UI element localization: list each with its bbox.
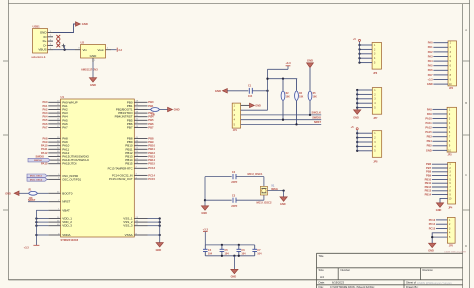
svg-text:10K: 10K (299, 97, 304, 99)
JP6 pin 4 stub (360, 57, 373, 59)
JP4 pin 4 stub (432, 175, 448, 177)
power port +3.3 at regulator output (116, 48, 118, 52)
svg-text:PB7: PB7 (148, 125, 154, 129)
U1 pin 30 (PA9) stub (48, 141, 60, 143)
U1 pin 6 (OSC_OUT/PD1) stub (48, 178, 60, 180)
header JP5 body (447, 217, 455, 243)
svg-text:SWDIO: SWDIO (312, 116, 321, 120)
JP5 pin 1 stub (436, 219, 447, 221)
resistor R4 (296, 79, 298, 91)
svg-text:JP6: JP6 (373, 73, 378, 75)
svg-text:6/19/2023: 6/19/2023 (332, 281, 344, 285)
svg-text:GND: GND (156, 249, 162, 252)
svg-text:3.3: 3.3 (118, 48, 122, 52)
U1 pin 36 (VDD_2) stub (48, 221, 60, 223)
header JP2 body (448, 41, 457, 86)
svg-text:22PF: 22PF (231, 181, 237, 184)
svg-text:PB12: PB12 (148, 151, 155, 155)
power port +3.3 bottom left (33, 244, 39, 246)
port MCU_OSC2 (27, 178, 47, 182)
svg-text:PB8: PB8 (148, 136, 154, 140)
svg-text:PA7: PA7 (428, 73, 433, 77)
JP8 pin 4 stub (357, 145, 372, 147)
JP2 pin 7 stub (433, 69, 448, 71)
svg-text:PA8: PA8 (42, 136, 48, 140)
JP7 pin 4 stub (357, 102, 372, 104)
svg-text:PC14: PC14 (429, 222, 436, 226)
svg-text:PA9: PA9 (42, 140, 48, 144)
U1 pin 15 (PA5) stub (48, 119, 60, 121)
svg-text:PC14: PC14 (148, 173, 155, 177)
svg-text:PA2: PA2 (428, 50, 433, 54)
USB1 pin 2 (ID) stub (48, 36, 54, 38)
header JP4 body (448, 162, 456, 204)
svg-text:PC13-TAMPER-RTC: PC13-TAMPER-RTC (108, 166, 133, 170)
svg-text:PA9: PA9 (427, 112, 432, 116)
svg-text:usb-micro-b: usb-micro-b (32, 56, 46, 59)
wire C2 to OSC1 node (236, 176, 264, 178)
svg-text:GND: GND (427, 82, 433, 86)
JP1 pin4 wire SWDIO (241, 119, 322, 121)
svg-text:OSC_IN/PD0: OSC_IN/PD0 (62, 174, 78, 178)
crystal Y1 body (260, 186, 267, 195)
svg-text:Number: Number (341, 268, 351, 272)
U1 pin 31 (PA10) stub (48, 145, 60, 147)
title block outline (317, 252, 463, 254)
svg-text:PB7: PB7 (127, 126, 133, 130)
svg-text:GND: GND (436, 209, 442, 212)
svg-text:PB9: PB9 (426, 174, 432, 178)
power port +5 above JP6 (359, 39, 361, 41)
svg-text:GND: GND (90, 54, 98, 58)
JP2 pin 3 stub (433, 51, 448, 53)
JP4 pin 3 stub (432, 171, 448, 173)
JP2 pin 10 stub (433, 83, 448, 85)
JP3 pin 9 stub (433, 145, 448, 147)
sheet border right outer (469, 0, 471, 288)
JP3 pin 1 stub (433, 108, 448, 110)
JP2 pin 4 stub (433, 56, 448, 58)
port MCU_OSC1 (27, 174, 47, 178)
svg-text:PB7: PB7 (426, 166, 432, 170)
svg-text:JP2: JP2 (449, 88, 454, 90)
svg-text:GND: GND (307, 58, 313, 62)
JP5 pin 5 wire (432, 236, 447, 238)
sheet border right inner (462, 4, 464, 288)
svg-text:PB10: PB10 (425, 177, 432, 181)
svg-text:PA2: PA2 (42, 107, 48, 111)
JP8 pin 5 stub (357, 150, 372, 152)
U1 pin 48 (VDD_3) stub (48, 225, 60, 227)
wire NRST net (28, 201, 48, 203)
JP3 pin 3 stub (433, 118, 448, 120)
wire GND to C1 (227, 90, 248, 92)
header JP1 body (232, 103, 240, 128)
svg-text:PA3: PA3 (428, 54, 433, 58)
U1 pin 9 (VDDA) stub (48, 234, 60, 236)
wire VDDA to rail (36, 234, 48, 236)
svg-text:NRST: NRST (314, 120, 321, 124)
U1 pin 37 (PA14/JTCK/SWCLK) stub (48, 159, 60, 161)
header JP8 body (372, 131, 381, 158)
U1 pin 14 (PA4) stub (48, 116, 60, 118)
junction R5 on SWCLK wire (309, 114, 311, 116)
svg-text:PC13: PC13 (429, 218, 436, 222)
svg-text:PB4: PB4 (427, 139, 433, 143)
regulator pin 2 stub (106, 49, 112, 51)
svg-text:A4: A4 (320, 275, 324, 279)
wire R3 to ground (160, 109, 168, 111)
ground GND right of crystal (280, 197, 287, 201)
wire regulator GND down (92, 62, 94, 78)
title block dividers (337, 268, 339, 280)
capacitor C4 (204, 245, 206, 249)
svg-text:PC15: PC15 (148, 177, 155, 181)
svg-text:PC15-OSC32_OUT: PC15-OSC32_OUT (109, 177, 133, 181)
svg-text:GND: GND (231, 275, 237, 278)
wire Vout to +3.3 power port (111, 49, 117, 51)
svg-text:PB15: PB15 (148, 162, 155, 166)
sheet border bottom inner (8, 279, 462, 281)
JP4 pin 6 stub (432, 182, 448, 184)
wire vertical 3.3 to JP1 pin2 (267, 69, 269, 110)
svg-text:PA12: PA12 (425, 126, 432, 130)
U1 pin 32 (PA11) stub (48, 148, 60, 150)
JP2 pin 8 stub (433, 74, 448, 76)
wire horizontal to power stub (268, 68, 289, 70)
U1 pin 35 (VSS_2) stub (134, 221, 147, 223)
svg-text:JP1: JP1 (233, 130, 238, 132)
svg-text:VDD_3: VDD_3 (62, 224, 72, 228)
ground GND at USB (76, 22, 81, 26)
ground GND below regulator (89, 78, 96, 82)
wire VDD_2 to rail (36, 221, 48, 223)
svg-text:PB0: PB0 (148, 100, 154, 104)
svg-text:PB6: PB6 (148, 122, 154, 126)
svg-text:MCU_OSC1: MCU_OSC1 (248, 172, 263, 176)
svg-text:PA5: PA5 (428, 64, 433, 68)
svg-text:Date:: Date: (319, 281, 326, 285)
U1 pin 13 (PA3) stub (48, 112, 60, 114)
U1 pin 2 (PC13-TAMPER-RTC) stub (134, 167, 147, 169)
svg-text:MCU_OSC2: MCU_OSC2 (257, 200, 272, 204)
svg-text:PC15: PC15 (429, 226, 436, 230)
sheet border top (8, 3, 469, 5)
wire VSS_3 to gnd rail (148, 225, 160, 227)
svg-text:GND: GND (215, 89, 221, 93)
svg-text:PB13: PB13 (148, 154, 155, 158)
JP1 pin3 wire SWCLK (241, 114, 322, 116)
svg-text:104: 104 (241, 253, 246, 256)
resistor R1 (29, 191, 37, 195)
JP6 pin 1 stub (360, 44, 373, 46)
svg-text:GND: GND (428, 249, 434, 252)
JP4 pin 2 stub (432, 167, 448, 169)
svg-text:PB1: PB1 (148, 104, 154, 108)
U1 pin 21 (PB10) stub (134, 145, 147, 147)
svg-text:SWCLK: SWCLK (311, 111, 321, 115)
svg-text:PA1: PA1 (428, 45, 433, 49)
U1 pin 29 (PA8) stub (48, 138, 60, 140)
svg-text:NRST: NRST (28, 198, 36, 202)
svg-text:PC13: PC13 (148, 166, 155, 170)
resistor R3 (151, 108, 159, 112)
svg-text:PB15: PB15 (125, 162, 133, 166)
U1 pin 3 (PC14-OSC32_IN) stub (134, 174, 147, 176)
U1 pin 16 (PA6) stub (48, 123, 60, 125)
header JP3 body (447, 107, 456, 152)
U1 pin 24 (VDD_1) stub (48, 218, 60, 220)
JP4 pin 1 stub (432, 163, 448, 165)
svg-text:U1: U1 (61, 95, 65, 99)
sheet border zone ticks left (3, 60, 8, 62)
svg-text:Vin: Vin (83, 48, 88, 52)
U1 pin 4 (PC15-OSC32_OUT) stub (134, 178, 147, 180)
svg-text:PB10: PB10 (148, 144, 155, 148)
JP8 pin 3 stub (357, 141, 372, 143)
resistor R2 (282, 79, 284, 91)
svg-text:PB14: PB14 (148, 158, 155, 162)
wire PB2 to resistor R3 (148, 109, 151, 111)
wire VBUS to regulator (53, 49, 75, 51)
svg-text:PA3: PA3 (42, 111, 48, 115)
svg-text:JP8: JP8 (373, 161, 378, 163)
junction R2 on SWDIO wire (282, 119, 284, 121)
capacitor C5 (221, 245, 223, 249)
wire VBAT to 3.3 rail (36, 209, 48, 211)
svg-text:PA0: PA0 (428, 41, 433, 45)
U1 pin 20 (PB2/BOOT1) stub (134, 109, 147, 111)
regulator pin 1 stub down (92, 58, 94, 62)
wire VDD_3 to rail (36, 225, 48, 227)
wire crystal vertical (263, 177, 265, 201)
JP3 pin 5 stub (433, 127, 448, 129)
JP3 pin 10 stub (433, 149, 448, 151)
svg-text:NRST: NRST (62, 200, 70, 204)
svg-text:JP4: JP4 (448, 206, 453, 209)
svg-text:PB11: PB11 (425, 181, 432, 185)
JP6 pin 5 stub (360, 62, 373, 64)
JP8 pin 1 stub (357, 132, 372, 134)
svg-text:Revision: Revision (423, 268, 434, 272)
svg-text:GND: GND (255, 105, 261, 108)
wire caps bottom rail (205, 255, 254, 257)
U1 pin 11 (PA1) stub (48, 105, 60, 107)
svg-text:PA15/JTDI: PA15/JTDI (62, 162, 76, 166)
svg-text:PA7: PA7 (42, 125, 48, 129)
svg-text:U2: U2 (81, 41, 85, 45)
svg-text:PB12: PB12 (425, 185, 432, 189)
ground GND below crystal caps (201, 206, 208, 210)
svg-text:SWDIO: SWDIO (36, 155, 45, 158)
JP7 pin 5 stub (357, 107, 372, 109)
svg-text:PA7: PA7 (62, 126, 68, 130)
svg-text:PB5: PB5 (427, 144, 433, 148)
JP5 pin 4 wire (432, 233, 447, 243)
U1 pin 45 (PB8) stub (134, 138, 147, 140)
U1 pin 39 (PB3/JTDO) stub (134, 112, 147, 114)
svg-text:JP7: JP7 (373, 118, 378, 120)
U1 pin 22 (PB11) stub (134, 148, 147, 150)
wire crystal case to ground (267, 190, 283, 192)
svg-text:+3.3: +3.3 (203, 228, 209, 232)
USB1 no-connect X on ID pin (56, 35, 60, 39)
U1 pin 43 (PB7) stub (134, 127, 147, 129)
svg-text:10K: 10K (286, 97, 291, 99)
USB1 pin 3 (D+) stub (48, 40, 54, 42)
capacitor C2 (232, 174, 234, 179)
svg-text:GND: GND (280, 203, 286, 206)
ground GND at JP1 pin1 (250, 103, 255, 107)
svg-text:GND: GND (82, 22, 88, 26)
U1 pin 5 (OSC_IN/PD0) stub (48, 175, 60, 177)
U1 pin 40 (PB4/JNTRST) stub (134, 116, 147, 118)
JP3 pin 6 stub (433, 131, 448, 133)
svg-text:10K: 10K (313, 97, 318, 99)
U1 pin 7 (NRST) stub (48, 201, 60, 203)
wire JP6 rail (359, 42, 361, 63)
svg-text:PB6: PB6 (426, 162, 432, 166)
svg-text:PC14-OSC32_IN: PC14-OSC32_IN (112, 173, 133, 177)
JP5 pin 2 stub (436, 223, 447, 225)
svg-text:STM32F103C8: STM32F103C8 (61, 238, 79, 242)
svg-text:AMS1117-3V3: AMS1117-3V3 (81, 67, 98, 71)
wire C1 to junction (252, 90, 267, 92)
svg-text:PA15: PA15 (425, 130, 432, 134)
ground GND right of R3 (168, 107, 173, 111)
svg-text:CSDN @Wsunyan999: CSDN @Wsunyan999 (444, 251, 467, 253)
USB1 pin 5 (VBUS) stub (48, 49, 54, 51)
svg-text:A: A (465, 28, 467, 32)
U1 pin 25 (PB12) stub (134, 152, 147, 154)
U1 pin 46 (PB9) stub (134, 141, 147, 143)
power port +5 above JP8 (356, 128, 358, 130)
svg-text:PA8: PA8 (427, 107, 432, 111)
port SWCLK on PA14 (28, 158, 50, 162)
svg-text:VBUS: VBUS (38, 48, 46, 52)
svg-text:PA12: PA12 (41, 151, 48, 155)
svg-text:10K: 10K (151, 115, 156, 117)
resistor R5 (309, 68, 311, 91)
U1 pin 47 (VSS_3) stub (134, 225, 147, 227)
svg-text:PA6: PA6 (428, 68, 433, 72)
svg-text:PA1: PA1 (42, 104, 48, 108)
JP5 pin 3 stub (436, 228, 447, 230)
U1 pin 17 (PA7) stub (48, 127, 60, 129)
svg-text:PA5: PA5 (42, 118, 48, 122)
svg-text:Sheet of: Sheet of (406, 281, 416, 285)
U1 pin 33 (PA12) stub (48, 152, 60, 154)
wire crystal gnd vertical (204, 177, 206, 206)
regulator pin 3 stub (75, 49, 81, 51)
capacitor C1 (248, 88, 250, 94)
ground GND below U1 (156, 243, 163, 247)
svg-text:VDDA: VDDA (62, 233, 70, 237)
JP4 pin 9 stub (432, 194, 448, 196)
JP2 pin 6 stub (433, 65, 448, 67)
VBUS stub up (64, 45, 66, 49)
svg-text:PA11: PA11 (41, 147, 48, 151)
svg-text:+3.3: +3.3 (24, 246, 30, 250)
JP2 pin 5 stub (433, 60, 448, 62)
U1 pin 44 (BOOT0) stub (48, 192, 60, 194)
svg-text:22PF: 22PF (231, 205, 237, 208)
power port +3.3 above pull resistors (287, 66, 289, 70)
svg-text:PA11: PA11 (426, 121, 433, 125)
svg-text:PB14: PB14 (425, 193, 432, 197)
wire 3.3 rail vertical (35, 210, 37, 245)
svg-text:PA4: PA4 (42, 115, 48, 119)
JP6 pin 2 stub (360, 48, 373, 50)
svg-text:104: 104 (257, 253, 262, 256)
U1 pin 26 (PB13) stub (134, 156, 147, 158)
svg-text:GND: GND (174, 108, 180, 112)
U1 pin 38 (PA15/JTDI) stub (48, 163, 60, 165)
svg-text:VBAT: VBAT (62, 208, 70, 212)
svg-text:VSSA: VSSA (125, 233, 133, 237)
JP7 pin 3 stub (357, 98, 372, 100)
svg-text:GND: GND (201, 212, 207, 215)
svg-text:PA15: PA15 (41, 162, 48, 166)
U1 pin 12 (PA2) stub (48, 109, 60, 111)
svg-text:104: 104 (225, 253, 230, 256)
JP1 pin5 wire NRST (241, 123, 322, 125)
header JP7 body (372, 88, 381, 115)
JP1 pin2 wire to 3.3 (241, 109, 268, 111)
JP4 pin 7 stub (432, 186, 448, 188)
svg-text:PB11: PB11 (148, 147, 155, 151)
ground GND at R1 (14, 191, 19, 195)
junction JP5 gnd node (431, 236, 433, 238)
ground GND below caps (231, 269, 238, 273)
wire VSSA to gnd rail (148, 234, 160, 236)
JP4 pin 10 wire to ground (440, 198, 448, 203)
svg-text:B: B (465, 101, 467, 105)
mcu U1 body (61, 99, 135, 237)
wire BOOT0 to resistor R1 (37, 192, 48, 194)
junction on VBUS wire (63, 49, 65, 51)
U1 pin 27 (PB14) stub (134, 159, 147, 161)
svg-text:OSC_OUT/PD1: OSC_OUT/PD1 (62, 177, 81, 181)
JP4 pin 5 stub (432, 178, 448, 180)
svg-text:PA6: PA6 (42, 122, 48, 126)
U1 pin 34 (PA13/JTMS/SWDIO) stub (48, 156, 60, 158)
svg-text:104: 104 (248, 95, 253, 98)
wire caps rail to ground (233, 256, 235, 269)
JP6 pin 3 stub (360, 53, 373, 55)
JP1 pin1 stub to GND (241, 104, 250, 106)
svg-text:PA0: PA0 (42, 100, 48, 104)
svg-text:JP3: JP3 (448, 154, 453, 156)
JP2 pin 2 stub (433, 46, 448, 48)
capacitor C7 (254, 245, 256, 249)
U1 pin 1 (VBAT) stub (48, 209, 60, 211)
svg-text:GND: GND (5, 193, 11, 196)
capacitor C3 (232, 198, 234, 203)
JP3 pin 4 stub (433, 122, 448, 124)
ground GND left of C1 (223, 89, 228, 93)
JP8 pin 2 stub (357, 137, 372, 139)
wire VSS_1 to gnd rail (148, 218, 160, 220)
U1 pin 41 (PB5) stub (134, 119, 147, 121)
svg-text:Vout: Vout (97, 48, 103, 52)
svg-text:PB9: PB9 (148, 140, 154, 144)
wire USB GND pin to GND symbol (53, 24, 76, 33)
U1 pin 8 (VSSA) stub (134, 234, 147, 236)
svg-text:JP5: JP5 (449, 245, 454, 247)
svg-text:104: 104 (208, 253, 213, 256)
svg-text:PA10: PA10 (425, 116, 432, 120)
